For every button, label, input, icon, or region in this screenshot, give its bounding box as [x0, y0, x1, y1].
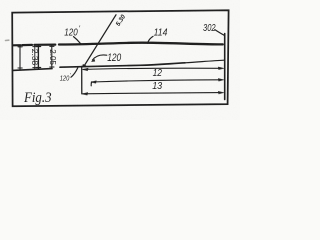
dimension line 12 [83, 68, 221, 69]
paper scan noise [0, 0, 1, 1]
arrow left of 12 line [82, 68, 88, 71]
bar bottom line [13, 69, 52, 71]
arrow left of 13 line [91, 81, 97, 84]
extension vertical for dimension lines [81, 66, 83, 93]
arrow right of 13 line [218, 78, 224, 81]
dim 2.05 right vertical [50, 45, 54, 68]
bar right edge vertical [224, 34, 226, 100]
diagonal scribe line 120 [84, 15, 116, 66]
bar bottom line right tail [185, 60, 224, 63]
arrow right of 12 line [218, 67, 224, 70]
leader of mid 120 label [92, 55, 106, 60]
leader of lower 120' label [71, 68, 78, 77]
border frame [12, 10, 228, 106]
leader of 302 label [215, 30, 225, 36]
dim 2.05 left vertical [37, 45, 41, 69]
unlabeled bottom dimension line [83, 93, 221, 94]
dim 2.38 left vertical [18, 46, 22, 70]
leader of 114 label [148, 36, 153, 43]
left stub of 13 line [90, 82, 93, 86]
arrow of mid 120 leader [91, 59, 95, 61]
junction dot at diagonal foot [83, 64, 85, 67]
bar top line (thick, dashed at left) [13, 44, 21, 46]
dim 2.38 right vertical [33, 45, 37, 69]
dimension line 13 [92, 80, 221, 82]
arrow right of bottom line [218, 91, 224, 94]
smudge outside left border [6, 39, 9, 41]
arrow left of bottom line [82, 92, 88, 95]
leader of top 120' label [74, 37, 81, 44]
